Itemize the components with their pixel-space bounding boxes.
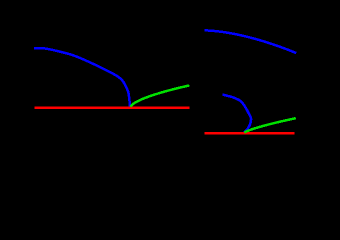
right panel: red equilibrium line bbox=[205, 132, 295, 135]
right panel: upper blue branch bbox=[205, 30, 297, 53]
right panel: blue fold arc bbox=[223, 95, 252, 133]
bifurcation diagrams: two panels on black bbox=[0, 0, 340, 179]
right panel: green branch bbox=[244, 118, 295, 132]
left panel: blue stable branch bbox=[34, 48, 130, 107]
left panel: green branch bbox=[130, 85, 189, 106]
left panel: red equilibrium line bbox=[34, 106, 189, 108]
